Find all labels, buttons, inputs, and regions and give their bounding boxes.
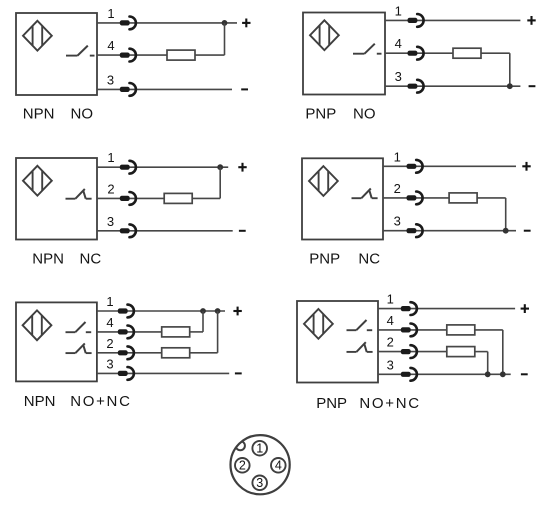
svg-text:2: 2 [107,181,114,196]
svg-text:4: 4 [275,459,282,473]
svg-text:3: 3 [106,356,113,371]
svg-text:1: 1 [395,3,402,18]
svg-text:NPN: NPN [24,393,56,410]
svg-text:PNP: PNP [316,395,347,412]
svg-text:4: 4 [107,38,114,53]
svg-text:1: 1 [256,442,263,456]
svg-text:2: 2 [106,336,113,351]
svg-text:3: 3 [256,476,263,490]
svg-text:NO+NC: NO+NC [359,395,420,412]
svg-text:3: 3 [107,214,114,229]
svg-text:NO: NO [353,106,376,123]
svg-text:PNP: PNP [305,106,336,123]
svg-text:1: 1 [387,292,394,307]
svg-text:3: 3 [107,72,114,87]
svg-text:NC: NC [358,251,380,268]
svg-text:3: 3 [387,357,394,372]
svg-text:NC: NC [80,251,102,268]
svg-text:4: 4 [395,36,402,51]
svg-text:PNP: PNP [309,251,340,268]
svg-text:NO+NC: NO+NC [70,393,131,410]
svg-text:3: 3 [395,69,402,84]
svg-text:1: 1 [107,6,114,21]
svg-text:NPN: NPN [32,251,64,268]
svg-text:NO: NO [71,105,94,122]
svg-text:NPN: NPN [23,105,55,122]
svg-text:1: 1 [394,149,401,164]
svg-text:3: 3 [394,214,401,229]
svg-text:1: 1 [106,294,113,309]
svg-text:1: 1 [107,150,114,165]
svg-text:4: 4 [387,313,394,328]
svg-text:4: 4 [106,315,113,330]
svg-text:2: 2 [394,181,401,196]
svg-text:2: 2 [387,335,394,350]
svg-text:2: 2 [239,459,246,473]
